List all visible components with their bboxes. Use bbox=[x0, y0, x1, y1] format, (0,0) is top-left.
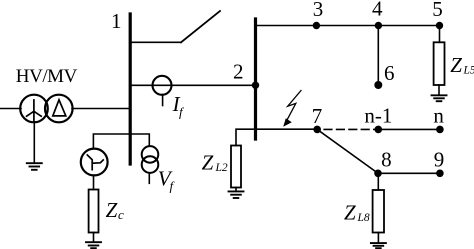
wire: top feeder bus2 to node 5 bbox=[256, 25, 441, 27]
ground (ZL2) bbox=[229, 191, 244, 198]
wire: node 8 down to ZL8 bbox=[377, 173, 379, 190]
svg-text:6: 6 bbox=[384, 61, 395, 85]
wire: dashed line node 7 to node n-1 bbox=[324, 128, 378, 130]
voltage source Vf (two overlapping circles) bbox=[142, 146, 159, 163]
lightning fault arrow bbox=[287, 91, 301, 120]
node 9 bbox=[436, 170, 444, 178]
svg-text:Z: Z bbox=[450, 53, 462, 77]
wire: bus 1 to bus 2 through If bbox=[130, 84, 256, 86]
ground (ZL5) bbox=[432, 95, 447, 101]
source G (zigzag source in circle) bbox=[81, 149, 108, 176]
svg-text:7: 7 bbox=[312, 104, 323, 128]
svg-text:8: 8 bbox=[381, 148, 392, 172]
transformer T1 HV/MV primary winding (wye) bbox=[20, 95, 48, 123]
ground (ZL8) bbox=[371, 243, 386, 248]
transformer T1 delta symbol bbox=[53, 100, 66, 116]
svg-text:c: c bbox=[118, 207, 124, 222]
ground (transformer neutral) bbox=[27, 163, 42, 170]
svg-text:L8: L8 bbox=[357, 212, 370, 224]
svg-text:Z: Z bbox=[106, 198, 118, 222]
wire: node 7 diagonal to node 8 bbox=[317, 129, 378, 173]
wire: transformer secondary to bus 1 bbox=[72, 108, 130, 110]
node 4 bbox=[375, 22, 382, 29]
node 7 bbox=[313, 126, 321, 134]
switch (open breaker blade) bbox=[181, 11, 220, 42]
source G squiggle symbol bbox=[87, 155, 103, 170]
wire: breaker feeder from bus 1 bbox=[130, 41, 181, 43]
node 6 bbox=[374, 81, 382, 89]
impedance Zc (rectangle) bbox=[89, 190, 99, 233]
wire: Zc to ground bbox=[93, 233, 95, 243]
ground (Zc) bbox=[86, 242, 101, 248]
wire: bus 2 to node 7 bbox=[256, 128, 318, 130]
wire: ZL8 to ground bbox=[377, 233, 379, 243]
impedance ZL2 (rectangle) bbox=[231, 146, 241, 188]
wire: Zc / Vf branch tee bbox=[93, 134, 149, 149]
svg-text:L2: L2 bbox=[215, 162, 228, 174]
svg-text:Z: Z bbox=[202, 151, 214, 175]
transformer T1 MV secondary winding (delta) bbox=[45, 95, 73, 123]
current source If bbox=[153, 76, 172, 95]
impedance ZL5 (rectangle) bbox=[434, 42, 445, 85]
wire: node 4 lateral down to node 6 bbox=[377, 26, 379, 86]
svg-text:3: 3 bbox=[313, 0, 324, 21]
node n-1 bbox=[375, 126, 383, 134]
svg-text:L5: L5 bbox=[463, 65, 474, 77]
node 8 bbox=[374, 170, 382, 178]
wire: HV source lead into transformer bbox=[0, 108, 21, 110]
wire: source to Zc bbox=[93, 175, 95, 189]
svg-text:n-1: n-1 bbox=[364, 104, 392, 128]
node n bbox=[436, 126, 444, 134]
svg-text:1: 1 bbox=[111, 9, 122, 33]
wire: ZL2 to ground bbox=[235, 188, 237, 192]
bus 1 bbox=[129, 14, 132, 164]
wire: node 5 to load ZL5 bbox=[439, 26, 441, 43]
svg-text:2: 2 bbox=[233, 59, 244, 83]
wire: ZL5 to ground bbox=[438, 85, 440, 95]
wire: Zc lateral from bus 2 (left) bbox=[236, 129, 256, 145]
svg-text:n: n bbox=[433, 103, 444, 127]
wire: transformer neutral to ground bbox=[33, 122, 35, 163]
svg-text:4: 4 bbox=[372, 0, 383, 21]
svg-text:Z: Z bbox=[344, 201, 356, 225]
node 5 bbox=[436, 22, 443, 29]
impedance ZL8 (rectangle) bbox=[373, 190, 384, 233]
transformer T1 wye symbol bbox=[27, 100, 42, 122]
wire: Vf bottom stub bbox=[148, 173, 150, 183]
wire: If probe stub bbox=[162, 95, 164, 106]
node 3 bbox=[313, 22, 320, 29]
node 2 bbox=[252, 82, 259, 89]
wire: node n-1 to node n bbox=[378, 128, 440, 130]
svg-text:HV/MV: HV/MV bbox=[16, 66, 78, 87]
svg-text:5: 5 bbox=[432, 0, 443, 21]
wire: node 8 to node 9 bbox=[378, 172, 440, 174]
bus 2 bbox=[254, 19, 257, 139]
svg-text:9: 9 bbox=[434, 147, 445, 171]
